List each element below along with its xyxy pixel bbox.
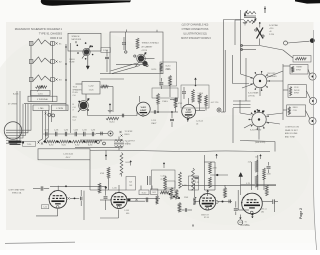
wire - S252 to note	[240, 127, 275, 152]
label S-251	[268, 73, 278, 78]
svg-text:B-305: B-305	[126, 162, 131, 164]
capacitor C-205	[159, 78, 163, 89]
box T-201	[31, 91, 51, 96]
svg-text:WOOF: WOOF	[294, 90, 300, 92]
title text line 2	[39, 32, 63, 36]
interstage transformer T-252	[114, 137, 128, 151]
wire - harness drops right	[38, 111, 49, 142]
label under V-202	[196, 121, 203, 126]
label 47 OHMS	[8, 103, 17, 105]
wire - V102 cathode	[100, 210, 119, 219]
svg-text:C-250 40-40: C-250 40-40	[63, 153, 73, 155]
label under S-251	[248, 92, 259, 98]
resistor ladder R2	[58, 140, 69, 146]
page edge crease line	[313, 30, 316, 250]
wire - S251 to modules	[267, 71, 283, 81]
svg-text:OTHER CONNECTIONS: OTHER CONNECTIONS	[182, 28, 209, 31]
label under V102	[124, 210, 129, 215]
box mid-left column	[160, 62, 177, 86]
resistor R-306	[164, 176, 167, 190]
svg-text:4 TERMINAL: 4 TERMINAL	[37, 98, 48, 101]
svg-text:TWEET: TWEET	[296, 67, 303, 69]
svg-text:6K6: 6K6	[126, 213, 129, 215]
wire - bus under boxes	[24, 103, 66, 105]
terminal circles near T-252	[97, 140, 106, 145]
title text line 1	[15, 27, 63, 31]
wire - right vline	[245, 58, 247, 101]
ground - mid with arrow	[108, 104, 112, 113]
transformer terminal row	[9, 141, 25, 144]
svg-text:1 MEG: 1 MEG	[162, 101, 168, 103]
label B-130	[182, 185, 187, 187]
junction dot ladder	[95, 141, 97, 143]
wire - right hlines	[233, 101, 251, 108]
terminal circle ladder	[108, 131, 113, 136]
resistor B-214	[106, 117, 119, 123]
resistor R-123	[178, 203, 181, 213]
svg-text:NETWORK: NETWORK	[72, 39, 82, 41]
capacitor C-102	[81, 190, 82, 206]
box T-250 label	[23, 141, 36, 146]
resistor R-125	[224, 185, 227, 198]
svg-text:TO SPKR: TO SPKR	[125, 131, 134, 133]
wire - S252 web	[240, 100, 283, 128]
svg-text:TREBLE-TONE ADJ: TREBLE-TONE ADJ	[142, 42, 159, 45]
svg-text:5-CM TAB: 5-CM TAB	[269, 24, 278, 27]
label under V103	[201, 214, 209, 219]
svg-text:C-6: C-6	[73, 95, 76, 97]
resistor R-303	[192, 168, 199, 190]
wire - c202 left	[76, 83, 83, 85]
svg-text:FUSE: FUSE	[70, 62, 76, 64]
capacitor C-204	[122, 114, 123, 118]
capacitor C-122	[234, 201, 238, 215]
resistor 470K	[174, 98, 183, 108]
tube V-102	[110, 193, 127, 209]
svg-text:1,2,3,4,5: 1,2,3,4,5	[196, 121, 203, 123]
box L-PAD	[33, 105, 49, 111]
label above V102	[112, 188, 117, 190]
svg-text:B-210: B-210	[166, 66, 171, 68]
label 220K	[184, 197, 189, 199]
grid cap V101	[67, 197, 79, 200]
svg-text:REAR OF SET: REAR OF SET	[285, 129, 298, 132]
label B-216	[152, 69, 172, 71]
svg-text:C-10: C-10	[43, 207, 47, 209]
svg-text:MAGNAVOX SCHEMATIC DIAGRAM: MAGNAVOX SCHEMATIC DIAGRAM 1	[15, 27, 63, 31]
svg-text:B-216: B-216	[152, 69, 157, 71]
terminal circle V-103	[215, 201, 218, 204]
connector module M2 woofer	[288, 85, 317, 105]
ground - input arrow	[86, 56, 89, 69]
wire - switch bank right rail	[52, 42, 54, 103]
wire - V101 cathode	[36, 209, 58, 216]
dot V202 cathode	[187, 118, 189, 122]
capacitor ladder C4	[74, 130, 78, 137]
svg-text:T-2: T-2	[126, 142, 128, 144]
wire - topright left rail	[240, 10, 242, 62]
arrow B+ pi 1	[130, 161, 132, 166]
svg-text:SPEECH: SPEECH	[72, 36, 80, 38]
svg-text:+H.T. 250: +H.T. 250	[211, 102, 219, 104]
svg-text:C-234: C-234	[82, 130, 86, 132]
wire - V202 top	[188, 98, 190, 104]
wire - pot out	[88, 110, 138, 116]
note text tm line 4	[181, 37, 211, 40]
wire - fuse link	[260, 46, 294, 59]
svg-text:Page 2: Page 2	[299, 208, 303, 219]
wire - boxes up	[141, 186, 152, 191]
wire - stub above box 2	[156, 30, 158, 32]
tube V-104	[241, 193, 262, 214]
junction dot ladder	[57, 141, 59, 143]
svg-text:RECORD: RECORD	[268, 73, 276, 75]
tube socket J1	[75, 41, 93, 59]
svg-text:COIL: COIL	[293, 110, 297, 112]
wire - feeder top	[235, 20, 241, 45]
svg-text:B-252: B-252	[75, 145, 79, 147]
wire - stub row 1	[80, 139, 122, 141]
svg-text:SPKR: SPKR	[294, 93, 300, 95]
terminal dark right	[310, 38, 315, 43]
wire - contact top	[259, 22, 261, 28]
wire - pi bottom bus	[90, 189, 126, 191]
scan artifact top right black strip	[295, 0, 320, 4]
box tone network	[110, 32, 163, 74]
svg-text:C-110: C-110	[112, 188, 117, 190]
label right of shield 4	[73, 116, 78, 122]
capacitor C-101 input	[33, 186, 49, 190]
label right of shield 3	[73, 104, 76, 112]
note text right	[285, 127, 300, 139]
box B-307	[189, 176, 199, 190]
svg-text:TO A: TO A	[73, 86, 78, 89]
resistor 1 MEG	[157, 94, 169, 105]
resistor R-122	[175, 190, 178, 200]
svg-text:+255 +5: +255 +5	[261, 209, 267, 211]
wire - top entry drop	[264, 6, 266, 13]
dot V103	[210, 205, 212, 207]
svg-text:L PAD: L PAD	[38, 107, 44, 110]
wire - V102 top	[118, 185, 120, 192]
wire - bottom bus	[182, 184, 276, 186]
wire - fan line 2	[112, 66, 140, 74]
svg-text:C-213: C-213	[151, 120, 156, 122]
svg-text:C-231: C-231	[54, 130, 58, 132]
label under V-201	[151, 120, 156, 125]
wire - V103 grid in	[195, 201, 199, 203]
junction dot ladder	[44, 141, 46, 143]
svg-text:B-253: B-253	[88, 145, 92, 147]
svg-text:12AX7: 12AX7	[151, 122, 156, 125]
capacitor C-208	[170, 112, 174, 127]
resistor R-102	[156, 196, 159, 205]
svg-text:T-201: T-201	[37, 93, 43, 95]
wire - V101 top	[50, 185, 106, 190]
svg-text:SPEAKER: SPEAKER	[73, 88, 83, 91]
svg-text:C-230: C-230	[44, 130, 48, 132]
indicator to ground	[238, 215, 249, 227]
svg-text:C-109: C-109	[124, 210, 129, 212]
svg-text:FIELD: FIELD	[125, 134, 131, 136]
resistor R-207	[160, 63, 163, 74]
box input shield	[68, 33, 101, 51]
wire - c202 right	[108, 87, 113, 113]
svg-text:S-252 FRONT: S-252 FRONT	[250, 130, 262, 132]
label 1 MEG 1/2W	[198, 93, 204, 98]
wire - topright entry	[241, 45, 260, 51]
dots S-252 top	[254, 110, 264, 113]
svg-text:FIELD: FIELD	[293, 107, 299, 109]
wire - ladder bottom stub	[43, 141, 45, 143]
svg-text:ARE VOLUME: ARE VOLUME	[285, 132, 298, 135]
page bottom edge line	[5, 242, 75, 243]
wire - V102 out B	[127, 200, 145, 202]
capacitor C-201	[105, 50, 109, 72]
svg-text:SHIELD 2A: SHIELD 2A	[12, 191, 22, 194]
note text small	[255, 142, 266, 144]
arrow V103 plate	[207, 190, 209, 196]
resistor R-120	[160, 191, 169, 194]
label box V101	[41, 205, 48, 209]
label topright block	[269, 24, 278, 36]
wire - pi left rail	[89, 160, 91, 190]
wire - harness fan into transformer	[6, 91, 31, 143]
capacitor ladder C5	[82, 130, 86, 137]
vibrator contact X	[255, 28, 264, 39]
fuse F1 with terminals	[29, 39, 62, 46]
svg-text:6J5GT: 6J5GT	[186, 112, 193, 114]
svg-text:AT CABINET: AT CABINET	[142, 45, 154, 48]
wire - V103 grid rail	[194, 183, 196, 197]
resistor R-101	[98, 183, 107, 193]
capacitor C-103	[104, 186, 108, 210]
svg-text:P-205: P-205	[103, 50, 108, 52]
scan artifact black wedge	[41, 0, 131, 6]
terminal circle feeder	[217, 108, 221, 112]
svg-text:6J5GT: 6J5GT	[140, 110, 147, 112]
svg-text:C-235: C-235	[91, 130, 95, 132]
wire - inner rail	[65, 44, 67, 110]
svg-text:1 MEG: 1 MEG	[198, 93, 204, 95]
svg-text:(1/2 OF CHANNELS 4(2): (1/2 OF CHANNELS 4(2)	[182, 23, 209, 26]
wire - into V-201	[136, 113, 138, 116]
terminal circle C-203	[125, 51, 127, 53]
svg-text:C-233: C-233	[74, 130, 78, 132]
svg-text:FIELD: FIELD	[70, 59, 76, 61]
arrow topright 2	[252, 19, 256, 25]
box B-301	[126, 177, 136, 191]
wire - feeder mid	[232, 108, 234, 143]
box fuse right edge	[293, 56, 311, 63]
svg-text:(SEE NOTE): (SEE NOTE)	[255, 142, 266, 144]
svg-text:T-250: T-250	[27, 144, 31, 146]
svg-text:5000: 5000	[166, 69, 170, 71]
wire - ladder top	[43, 133, 96, 135]
svg-text:17-26: 17-26	[89, 90, 94, 92]
note text tm line 2	[182, 28, 209, 31]
label B-205	[13, 94, 19, 96]
wire - V201 top	[139, 96, 141, 102]
capacitor column	[170, 98, 177, 102]
svg-text:C-8: C-8	[73, 107, 76, 109]
wire - shield partition	[70, 43, 72, 133]
wire - feeder pair	[221, 45, 225, 112]
box network V202	[181, 85, 209, 108]
wire - ladder to terminal	[96, 132, 108, 136]
svg-text:6SN7 GT: 6SN7 GT	[201, 214, 209, 216]
box B-111	[151, 189, 158, 194]
terminal circle E1	[284, 41, 288, 45]
svg-text:B-205: B-205	[13, 94, 19, 96]
capacitor C-305	[267, 162, 271, 173]
connector module M3 field	[287, 105, 316, 125]
resistor R-301	[100, 167, 110, 190]
wire - mid bus 2	[100, 78, 124, 80]
title text line 3	[50, 36, 62, 40]
box filter	[38, 149, 90, 160]
box C-302	[152, 170, 176, 190]
svg-text:C-302: C-302	[161, 176, 166, 178]
wire - right assembly border	[233, 55, 250, 84]
arrow B+ mid	[195, 78, 197, 86]
wire - right rail V101	[83, 191, 85, 220]
note text tm line 1	[182, 23, 209, 26]
svg-text:A (C): A (C)	[73, 116, 78, 119]
tube V-101	[48, 191, 66, 209]
label ladder right	[125, 131, 134, 136]
wire - long B+ bus	[90, 150, 270, 151]
svg-text:SPKR: SPKR	[296, 70, 302, 72]
svg-text:1/2: 1/2	[255, 157, 257, 159]
label right of shield 2	[73, 86, 83, 97]
label stub rows	[125, 141, 136, 146]
wire - contact drop	[259, 39, 261, 46]
wire - long mid bus	[100, 73, 110, 75]
divider assembly A	[195, 154, 228, 190]
box grid network	[152, 88, 178, 98]
label V104 right	[261, 209, 267, 214]
svg-text:LIGHT GRAY WIRE: LIGHT GRAY WIRE	[9, 189, 26, 192]
svg-text:V-201: V-201	[186, 109, 192, 111]
svg-text:C-4: C-4	[73, 119, 76, 121]
resistor R-121	[170, 188, 173, 200]
label bottom right	[239, 222, 250, 227]
svg-text:280: 280	[261, 211, 264, 213]
svg-text:+250: +250	[269, 28, 273, 30]
svg-text:OUTPUT 2A: OUTPUT 2A	[240, 224, 250, 227]
label FIELD FUSE	[70, 59, 76, 64]
tube V-201	[136, 102, 150, 116]
svg-text:6550: 6550	[239, 222, 243, 224]
svg-text:CONTROLS ON: CONTROLS ON	[285, 127, 300, 129]
terminal x marks	[37, 141, 43, 144]
x mark small	[192, 225, 194, 227]
resistor R-205	[101, 85, 109, 88]
svg-text:B-250: B-250	[49, 145, 53, 147]
crossover mark	[135, 198, 138, 201]
terminal x right	[119, 131, 122, 137]
svg-text:TYPE 91 CHASSIS: TYPE 91 CHASSIS	[39, 32, 63, 36]
transformer T-251 scallops	[244, 12, 256, 23]
svg-text:1/2 W: 1/2 W	[198, 96, 203, 98]
svg-text:6 TERM: 6 TERM	[56, 108, 63, 110]
label feeder	[211, 102, 219, 104]
svg-text:B-214: B-214	[110, 122, 115, 124]
svg-text:P-250: P-250	[269, 34, 274, 36]
wire - stub row 2	[75, 146, 122, 148]
capacitor C-140	[262, 199, 278, 212]
svg-text:B-110: B-110	[142, 193, 146, 195]
label input box	[72, 36, 82, 41]
junction dots cluster	[169, 193, 181, 199]
wire - drop from terminal block	[51, 111, 53, 123]
box C-202	[82, 82, 100, 95]
capacitor ladder C3	[64, 130, 68, 137]
capacitor C-301	[148, 176, 151, 185]
rotary switch S-252	[249, 109, 269, 130]
svg-text:C-202: C-202	[88, 86, 93, 88]
connector module M1 tweeter	[290, 65, 316, 81]
svg-text:MOST STRAIGHT DOWN 6: MOST STRAIGHT DOWN 6	[181, 37, 211, 40]
tube V-103	[199, 194, 216, 211]
svg-text:B-11: B-11	[152, 192, 155, 194]
resistor column	[169, 76, 172, 86]
wire - fan line 1	[111, 63, 138, 71]
wire - column drop	[169, 86, 171, 98]
wire - switch bank left rail	[30, 42, 32, 103]
junction dot ladder	[69, 141, 71, 143]
capacitor C-121	[229, 200, 230, 204]
svg-text:V-201: V-201	[141, 107, 147, 109]
divider assembly B	[246, 155, 261, 191]
page number	[299, 208, 303, 219]
resistor plate 2	[192, 90, 195, 103]
capacitor ladder C6	[91, 130, 95, 137]
wire - pot to right	[140, 58, 155, 60]
svg-text:ODD # 44: ODD # 44	[50, 36, 62, 40]
volume pot R-206	[78, 99, 89, 113]
tube V-202	[182, 104, 196, 118]
svg-text:ILLUSTRATIONS 5(2): ILLUSTRATIONS 5(2)	[183, 32, 207, 35]
svg-text:4 POS: 4 POS	[142, 50, 148, 52]
wire - r drop 1	[157, 104, 159, 111]
resistor ladder R1	[46, 140, 57, 146]
resistor R-305	[263, 168, 272, 190]
svg-text:S-251 REAR: S-251 REAR	[248, 92, 259, 95]
fuse F2 with terminals	[29, 57, 62, 64]
svg-text:AND TONE: AND TONE	[285, 135, 295, 138]
label P-205	[101, 48, 111, 53]
svg-text:PLUG: PLUG	[73, 92, 79, 94]
wire - V103 out	[217, 201, 232, 203]
arrow B+ pi 2	[163, 163, 165, 169]
wire - top link	[224, 20, 245, 46]
variable resistor R-201	[36, 86, 47, 92]
wire - c202 to pot	[85, 94, 87, 101]
svg-text:ST-14: ST-14	[204, 217, 209, 219]
box B-110	[139, 190, 149, 195]
resistor R-307 tall	[120, 153, 130, 177]
capacitor C-203	[122, 37, 126, 50]
junction dot ladder	[83, 141, 85, 143]
resistor R-203	[136, 38, 139, 49]
wire - stub above box 1	[125, 30, 127, 33]
wire - V102 out A	[127, 198, 160, 200]
resistor plate 3	[205, 95, 208, 111]
resistor ladder R3	[71, 140, 84, 146]
resistor R-302	[179, 172, 182, 188]
